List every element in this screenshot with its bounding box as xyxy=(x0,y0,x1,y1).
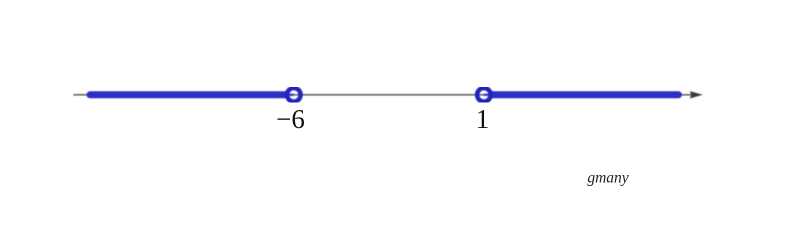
svg-text:1: 1 xyxy=(476,104,490,134)
svg-text:gmany: gmany xyxy=(587,170,628,187)
svg-text:−6: −6 xyxy=(276,104,305,134)
